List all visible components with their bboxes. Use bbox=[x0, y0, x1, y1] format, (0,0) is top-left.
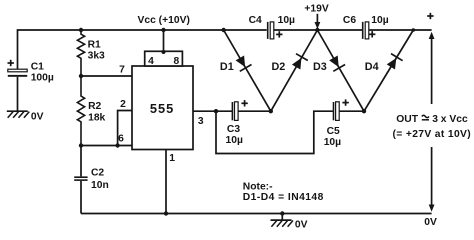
C3 plus sign bbox=[241, 100, 247, 106]
capacitor C4 bbox=[267, 22, 274, 39]
svg-text:C2: C2 bbox=[91, 168, 104, 179]
svg-text:3: 3 bbox=[198, 116, 204, 127]
svg-text:C1: C1 bbox=[31, 62, 44, 73]
wire top rail middle segment (+19V node) bbox=[274, 29, 362, 31]
svg-text:555: 555 bbox=[150, 101, 174, 116]
svg-text:6: 6 bbox=[118, 134, 124, 145]
svg-text:(= +27V at 10V): (= +27V at 10V) bbox=[393, 129, 472, 140]
ground (C1) bbox=[7, 111, 30, 118]
svg-text:R1: R1 bbox=[88, 40, 101, 51]
capacitor C2 bbox=[74, 146, 87, 214]
svg-text:R2: R2 bbox=[88, 101, 101, 112]
svg-text:+19V: +19V bbox=[304, 4, 328, 15]
wire Vcc to 555 bbox=[163, 30, 165, 51]
svg-text:D1-D4 = IN4148: D1-D4 = IN4148 bbox=[243, 192, 324, 203]
svg-text:7: 7 bbox=[119, 64, 125, 75]
svg-text:0V: 0V bbox=[295, 220, 308, 231]
svg-text:OUT: OUT bbox=[396, 114, 418, 125]
junction R1 top on Vcc rail bbox=[79, 28, 83, 32]
svg-text:Vcc (+10V): Vcc (+10V) bbox=[138, 15, 190, 26]
wire pin3 branch to C5 bbox=[216, 111, 333, 153]
svg-text:D4: D4 bbox=[365, 61, 379, 73]
svg-text:0V: 0V bbox=[31, 112, 44, 123]
C5 plus sign bbox=[342, 99, 348, 105]
svg-text:D3: D3 bbox=[313, 61, 327, 73]
junction R2/C2/pin6 bbox=[79, 143, 83, 147]
wire pin7 bbox=[81, 75, 132, 77]
svg-text:10µ: 10µ bbox=[278, 15, 295, 26]
output arrow bbox=[429, 32, 435, 212]
svg-text:2: 2 bbox=[120, 99, 126, 110]
svg-text:1: 1 bbox=[169, 153, 175, 164]
node A (D1-D2 junction) bbox=[269, 109, 273, 113]
diode D3 bbox=[317, 30, 364, 111]
wire bottom rail bbox=[81, 213, 432, 215]
capacitor C5 bbox=[333, 102, 340, 121]
ground (bottom rail) bbox=[271, 214, 294, 227]
wire pin6 bbox=[81, 145, 132, 147]
wire top rail left segment (Vcc rail) bbox=[18, 30, 267, 69]
wire pin1 bbox=[165, 150, 167, 214]
junction R1/R2/pin7 bbox=[79, 74, 83, 78]
approx-equal symbol bbox=[422, 115, 429, 120]
wire pin2 bbox=[118, 111, 132, 146]
junction at 555 supply box top bbox=[162, 50, 166, 54]
C1 plus sign bbox=[8, 60, 14, 66]
resistor R2 bbox=[77, 76, 84, 146]
+19V arrow bbox=[315, 14, 321, 29]
junction D4 cathode on output wire bbox=[412, 28, 416, 32]
wire top rail right segment (output node) bbox=[369, 29, 432, 31]
svg-text:10n: 10n bbox=[91, 180, 109, 191]
junction pin2 tie to pin6 wire bbox=[115, 143, 119, 147]
junction pin1 on bottom rail bbox=[164, 211, 168, 215]
wire pin3 bbox=[193, 110, 232, 112]
svg-text:100µ: 100µ bbox=[31, 73, 54, 84]
output plus sign bbox=[427, 13, 433, 19]
svg-text:10µ: 10µ bbox=[226, 135, 243, 146]
wire C3 to node A bbox=[238, 110, 270, 112]
wire C5 to node B bbox=[339, 110, 364, 112]
IC 555 U1 bbox=[132, 66, 193, 150]
svg-text:Note:-: Note:- bbox=[243, 181, 273, 192]
svg-text:4: 4 bbox=[148, 56, 154, 67]
svg-text:C5: C5 bbox=[327, 126, 340, 137]
junction D1 anode on Vcc rail bbox=[221, 28, 225, 32]
svg-text:3 x Vcc: 3 x Vcc bbox=[432, 114, 468, 125]
diode D1 bbox=[224, 30, 271, 111]
capacitor C1 bbox=[8, 69, 27, 111]
capacitor C6 bbox=[362, 22, 369, 39]
diode D4 bbox=[364, 30, 413, 111]
svg-text:10µ: 10µ bbox=[371, 15, 388, 26]
svg-text:10µ: 10µ bbox=[324, 137, 341, 148]
svg-text:18k: 18k bbox=[88, 112, 105, 123]
capacitor C3 bbox=[232, 102, 239, 121]
svg-text:C3: C3 bbox=[227, 124, 240, 135]
555 supply sub-box pins 4 8 bbox=[145, 51, 183, 66]
svg-text:C4: C4 bbox=[249, 15, 262, 26]
junction 555 supply on Vcc rail bbox=[161, 28, 165, 32]
svg-text:D2: D2 bbox=[272, 61, 286, 73]
diode D2 bbox=[271, 30, 318, 111]
junction ground stub on bottom rail bbox=[280, 211, 284, 215]
junction pin3 output branch bbox=[214, 109, 218, 113]
svg-text:3k3: 3k3 bbox=[88, 51, 105, 62]
node +19V (D2-D3 junction) bbox=[315, 28, 319, 32]
svg-text:0V: 0V bbox=[424, 217, 437, 228]
svg-text:8: 8 bbox=[174, 56, 180, 67]
resistor R1 bbox=[77, 30, 84, 76]
C4 plus sign bbox=[276, 31, 282, 37]
svg-text:C6: C6 bbox=[343, 15, 356, 26]
svg-text:D1: D1 bbox=[220, 61, 234, 73]
node B (D3-D4 junction) bbox=[362, 109, 366, 113]
C6 plus sign bbox=[369, 31, 375, 37]
